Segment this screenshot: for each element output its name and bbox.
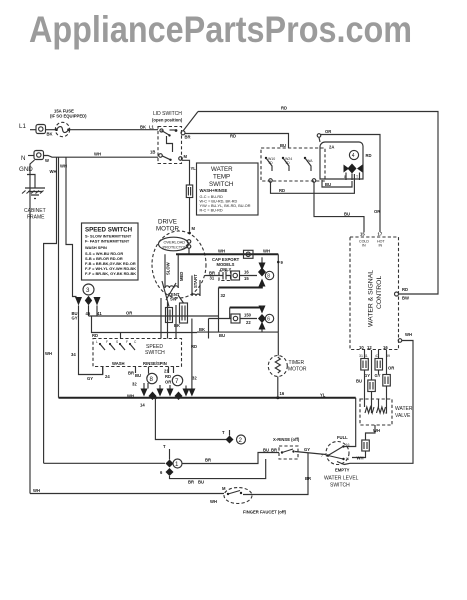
svg-text:RD: RD [281, 106, 287, 111]
speed switch legend box [82, 223, 139, 280]
svg-text:BK: BK [140, 125, 146, 130]
svg-text:17: 17 [378, 232, 383, 237]
svg-text:SWITCH: SWITCH [145, 350, 165, 356]
svg-text:BU: BU [344, 212, 350, 217]
svg-text:24: 24 [105, 374, 110, 379]
svg-text:SW: SW [170, 297, 177, 302]
svg-text:WH: WH [60, 164, 67, 169]
svg-text:BR: BR [188, 480, 194, 485]
wire left long vertical [58, 157, 60, 398]
connector box 3 [368, 380, 376, 392]
svg-text:WH: WH [45, 351, 52, 356]
svg-text:10: 10 [359, 345, 364, 350]
wire L1 to terminal [30, 129, 36, 131]
svg-text:AppliancePartsPros.com: AppliancePartsPros.com [29, 8, 412, 50]
wire second WH [66, 157, 77, 296]
bottom rail [30, 493, 224, 495]
wire stub into speed switch [120, 333, 122, 339]
svg-text:N: N [21, 155, 25, 162]
svg-text:16: 16 [383, 345, 388, 350]
svg-text:FINGER FAUCET (off): FINGER FAUCET (off) [243, 510, 287, 515]
svg-text:6: 6 [160, 470, 163, 475]
wire terminal to fuse [46, 129, 56, 131]
svg-text:22: 22 [246, 320, 251, 325]
svg-text:BR: BR [185, 135, 191, 140]
cent sw [162, 281, 184, 307]
wire fuse to lid switch [69, 129, 159, 131]
contacts [160, 129, 163, 132]
svg-text:CABINET: CABINET [24, 208, 46, 214]
wire from terminal down right [271, 174, 355, 193]
out terminal BR [181, 131, 185, 135]
svg-text:WATER: WATER [211, 166, 233, 173]
svg-text:VALVE: VALVE [395, 413, 411, 419]
timer contact 8 [147, 373, 157, 383]
drop to circle 2 [155, 398, 229, 440]
svg-text:TIMER: TIMER [289, 360, 305, 366]
finger faucet [224, 488, 252, 504]
svg-text:1: 1 [175, 461, 179, 468]
svg-text:WH: WH [373, 428, 380, 433]
wire BU from second terminal [314, 182, 364, 232]
svg-text:RD: RD [92, 333, 98, 338]
misc verticals into speed box [192, 316, 219, 389]
svg-text:32: 32 [192, 376, 197, 381]
svg-text:WATER & SIGNAL: WATER & SIGNAL [368, 270, 375, 327]
svg-text:L1: L1 [149, 125, 155, 130]
wire top RD [198, 112, 438, 295]
connector to 6 [231, 314, 240, 323]
right WH drop [398, 339, 402, 343]
timer contact 3 [83, 284, 94, 295]
svg-text:W: W [45, 158, 49, 163]
wire M down to motor [182, 160, 190, 185]
svg-text:F: F [106, 340, 108, 344]
svg-text:GND: GND [19, 166, 33, 173]
connector on neutral [244, 250, 254, 258]
timer motor [277, 332, 280, 398]
circle 4 [349, 150, 358, 159]
svg-text:FULL: FULL [337, 435, 348, 440]
svg-text:21: 21 [164, 369, 169, 374]
triangles under 7 [167, 389, 174, 397]
wire BR/RD right [185, 134, 289, 149]
svg-text:12: 12 [367, 345, 372, 350]
svg-text:L: L [96, 340, 98, 344]
svg-text:RD: RD [366, 153, 372, 158]
motor to box links [161, 298, 176, 339]
svg-text:TD: TD [285, 161, 290, 165]
contact 3 [304, 157, 306, 159]
svg-text:C: C [134, 340, 137, 344]
svg-text:9: 9 [281, 260, 284, 265]
svg-text:F: F [126, 340, 128, 344]
svg-text:L1: L1 [19, 123, 26, 130]
timer contact 7 [172, 375, 182, 385]
svg-text:OR: OR [388, 366, 394, 371]
svg-text:X-RINSE (off): X-RINSE (off) [273, 437, 300, 442]
svg-text:GY: GY [87, 376, 93, 381]
svg-text:Y/W = BU-YL, BK-RD, BU-OR: Y/W = BU-YL, BK-RD, BU-OR [200, 204, 251, 208]
svg-text:BU: BU [198, 480, 204, 485]
svg-text:16: 16 [280, 391, 285, 396]
svg-text:WH: WH [33, 488, 40, 493]
svg-text:WH: WH [263, 249, 270, 254]
svg-text:OR: OR [126, 311, 132, 316]
step link [167, 136, 173, 152]
svg-text:4: 4 [352, 153, 355, 159]
svg-text:MOTOR: MOTOR [288, 367, 307, 373]
connector box 1 [361, 359, 369, 371]
svg-text:WASH+RINSE: WASH+RINSE [200, 188, 228, 193]
svg-text:8: 8 [344, 175, 346, 179]
empty wire [344, 463, 350, 464]
out of circle 1 [182, 453, 279, 464]
wire diag to top [183, 112, 198, 132]
svg-text:6: 6 [267, 317, 270, 323]
svg-text:W-C = BU-RD, BK-RD: W-C = BU-RD, BK-RD [200, 200, 238, 204]
fuse F1 15A (dashed circle) [55, 122, 69, 136]
svg-text:3: 3 [86, 287, 90, 294]
triangles [75, 297, 82, 306]
svg-text:R-C = BU-RD: R-C = BU-RD [200, 209, 223, 213]
connector wires down [365, 350, 387, 380]
terminal N [34, 151, 44, 160]
svg-text:EMPTY: EMPTY [335, 468, 350, 473]
dashed contact box [261, 148, 325, 181]
svg-text:WH: WH [210, 499, 217, 504]
svg-text:GY: GY [72, 316, 78, 321]
svg-text:GY: GY [304, 447, 310, 452]
connector box 4 [383, 375, 391, 387]
svg-text:BR: BR [128, 371, 134, 376]
circle 1 row [44, 462, 165, 464]
svg-text:WASH SPIN: WASH SPIN [85, 245, 107, 250]
capacitor dashed box [219, 271, 231, 281]
terminals inside [99, 343, 101, 345]
svg-text:RD: RD [191, 344, 197, 349]
svg-text:F-F = BR-BK, GY-BK RD-BK: F-F = BR-BK, GY-BK RD-BK [85, 271, 136, 276]
terminal L1 [36, 125, 46, 134]
svg-text:BU: BU [356, 379, 362, 384]
wires into valve [365, 370, 387, 399]
svg-text:(open position): (open position) [152, 118, 183, 123]
wire neutral left rail [30, 160, 35, 494]
svg-text:G-C = BU-RD: G-C = BU-RD [200, 195, 224, 199]
lower contact [159, 154, 163, 158]
svg-text:IN: IN [379, 244, 383, 248]
svg-text:WH: WH [218, 249, 225, 254]
junction dots on main rail [154, 396, 157, 399]
svg-text:MED: MED [179, 272, 184, 281]
svg-text:M: M [184, 154, 188, 159]
svg-text:41: 41 [97, 311, 102, 316]
drive motor body [152, 231, 206, 298]
svg-text:TD: TD [268, 161, 273, 165]
bottom connector box [362, 440, 370, 451]
connector box [231, 271, 240, 280]
svg-text:BU: BU [263, 448, 269, 453]
svg-text:WA: WA [307, 159, 313, 163]
contact 6 [259, 306, 266, 314]
wire bottom of rect [197, 331, 278, 333]
thermal fuse [186, 185, 192, 198]
svg-text:RD: RD [230, 134, 236, 139]
connector box 2 [375, 359, 383, 371]
full wire up [344, 398, 356, 447]
valve bottom wire [366, 425, 376, 440]
svg-text:34: 34 [71, 352, 76, 357]
contact 2 [282, 157, 284, 159]
svg-text:BW: BW [402, 296, 409, 301]
svg-text:2: 2 [239, 437, 243, 444]
svg-text:8: 8 [267, 274, 270, 280]
neutral wire [176, 253, 278, 255]
svg-text:SWITCH: SWITCH [209, 181, 233, 188]
winding coils [165, 286, 178, 288]
svg-text:11: 11 [346, 457, 350, 461]
svg-text:IN: IN [362, 244, 366, 248]
svg-text:RINSE/SPIN: RINSE/SPIN [143, 361, 167, 366]
svg-text:32: 32 [221, 293, 226, 298]
svg-text:RD: RD [165, 374, 171, 379]
solenoid coils [365, 407, 385, 413]
svg-text:MOTOR: MOTOR [156, 226, 179, 233]
svg-text:31 41: 31 41 [359, 354, 368, 358]
svg-text:(IF SO EQUIPPED): (IF SO EQUIPPED) [50, 114, 87, 119]
svg-text:WH: WH [357, 456, 364, 461]
svg-text:OR: OR [325, 129, 331, 134]
blades [327, 454, 330, 457]
lower BR BU wire [170, 459, 266, 479]
svg-text:T: T [356, 175, 359, 179]
svg-text:LID SWITCH: LID SWITCH [153, 111, 182, 117]
svg-text:15: 15 [244, 276, 249, 281]
svg-text:F- FAST INTERMITTENT: F- FAST INTERMITTENT [85, 239, 130, 244]
svg-text:SLOW: SLOW [166, 262, 171, 275]
svg-text:1B: 1B [150, 150, 155, 155]
svg-text:BK: BK [174, 323, 180, 328]
bottom terminals [269, 179, 273, 183]
svg-text:RD: RD [279, 188, 285, 193]
svg-text:GY: GY [375, 373, 381, 378]
svg-text:SWITCH: SWITCH [330, 483, 350, 489]
svg-text:WASH: WASH [112, 361, 125, 366]
svg-text:15: 15 [360, 232, 365, 237]
svg-text:T: T [222, 430, 225, 435]
svg-text:BU: BU [219, 333, 225, 338]
contact group under 4 [344, 165, 350, 173]
wire stubs into valve [365, 399, 387, 413]
solid box with 4 [320, 142, 363, 179]
water valve dashed box [360, 399, 392, 425]
thick bar [219, 287, 263, 289]
water temp switch box [197, 163, 259, 215]
dashed box [350, 237, 399, 350]
svg-text:RD: RD [402, 287, 408, 292]
svg-text:8: 8 [150, 376, 154, 383]
svg-text:BU: BU [280, 143, 286, 148]
svg-text:YL: YL [320, 393, 326, 398]
svg-text:START: START [193, 274, 198, 288]
svg-text:BK: BK [199, 327, 205, 332]
svg-text:T: T [163, 444, 166, 449]
svg-text:M: M [192, 226, 196, 231]
triangles under 8 [141, 389, 148, 397]
wire N to rail [44, 156, 159, 158]
svg-text:WH: WH [405, 332, 412, 337]
svg-text:TEMP: TEMP [213, 174, 230, 181]
svg-text:PROTECTOR: PROTECTOR [163, 245, 188, 250]
svg-text:WH: WH [94, 152, 101, 157]
svg-text:WH: WH [50, 169, 57, 174]
svg-text:S: S [116, 340, 118, 344]
motor connector rects [166, 308, 173, 323]
svg-text:CONTROL: CONTROL [376, 276, 383, 309]
svg-text:BU: BU [325, 182, 331, 187]
svg-text:16: 16 [244, 270, 249, 275]
right edge down [277, 254, 279, 332]
svg-text:BK: BK [47, 132, 53, 137]
motor M junction [188, 232, 191, 235]
svg-text:YL: YL [191, 166, 197, 171]
svg-text:BR: BR [205, 458, 211, 463]
ground symbol cabinet frame [25, 188, 45, 199]
svg-text:OR: OR [165, 380, 171, 385]
second thick bar [230, 307, 263, 309]
svg-text:7: 7 [175, 378, 179, 385]
lid switch dashed box [158, 127, 182, 164]
svg-text:BR: BR [271, 448, 277, 453]
svg-text:150: 150 [244, 313, 252, 318]
water level switch body [326, 442, 349, 465]
short BU jog [322, 180, 352, 187]
wire stair WH [44, 157, 57, 463]
svg-text:14: 14 [140, 403, 145, 408]
svg-text:SPEED SWITCH: SPEED SWITCH [85, 227, 133, 234]
wire gnd [27, 175, 35, 189]
contact 8 [259, 263, 266, 271]
svg-text:32: 32 [132, 382, 137, 387]
svg-text:DRIVE: DRIVE [158, 219, 177, 226]
contact 1 [265, 157, 267, 159]
svg-text:BR: BR [305, 476, 311, 481]
svg-text:M: M [222, 486, 226, 491]
svg-text:BU: BU [135, 373, 141, 378]
terminal 10 and OR wire [317, 134, 321, 138]
svg-text:45: 45 [86, 311, 91, 316]
wire main bottom rail [59, 397, 356, 399]
speed switch box [93, 339, 182, 367]
svg-text:OR: OR [374, 209, 380, 214]
overload protector [159, 237, 189, 251]
right terminal [395, 292, 399, 296]
svg-text:WATER LEVEL: WATER LEVEL [324, 476, 359, 482]
svg-text:31: 31 [210, 276, 215, 281]
wire RD lower [92, 316, 198, 333]
wire OR to right [89, 315, 219, 317]
svg-text:2A: 2A [329, 145, 334, 150]
bottom stubs [103, 367, 174, 375]
svg-text:WATER: WATER [395, 406, 413, 412]
